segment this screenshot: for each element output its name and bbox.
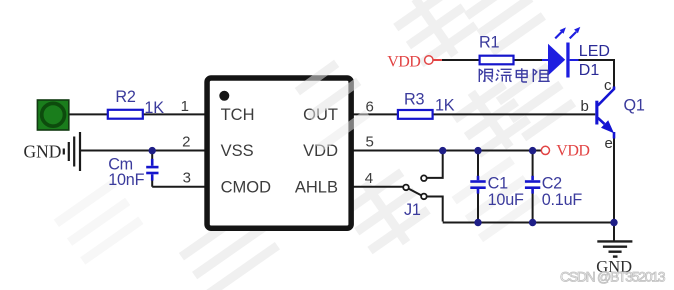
svg-text:R3: R3 bbox=[404, 91, 424, 109]
svg-text:10nF: 10nF bbox=[108, 171, 144, 189]
svg-text:3: 3 bbox=[183, 170, 191, 187]
svg-text:VDD: VDD bbox=[556, 143, 589, 160]
svg-text:AHLB: AHLB bbox=[295, 179, 338, 197]
svg-text:c: c bbox=[604, 77, 612, 94]
svg-text:LED: LED bbox=[579, 43, 610, 60]
svg-text:D1: D1 bbox=[579, 62, 600, 79]
svg-text:2: 2 bbox=[182, 134, 190, 151]
svg-text:1: 1 bbox=[181, 98, 189, 115]
svg-text:e: e bbox=[605, 135, 613, 152]
svg-text:R2: R2 bbox=[115, 88, 135, 106]
svg-text:VSS: VSS bbox=[221, 142, 254, 160]
svg-text:b: b bbox=[581, 98, 589, 115]
svg-text:10uF: 10uF bbox=[488, 191, 524, 209]
svg-text:Q1: Q1 bbox=[624, 97, 645, 115]
svg-text:1K: 1K bbox=[144, 99, 164, 117]
svg-text:1K: 1K bbox=[435, 97, 455, 115]
svg-text:TCH: TCH bbox=[221, 106, 255, 124]
svg-text:CMOD: CMOD bbox=[221, 179, 271, 197]
svg-text:GND: GND bbox=[24, 141, 62, 161]
svg-text:5: 5 bbox=[366, 133, 374, 150]
svg-text:4: 4 bbox=[365, 170, 373, 187]
svg-text:VDD: VDD bbox=[387, 54, 420, 71]
svg-text:J1: J1 bbox=[404, 201, 421, 219]
svg-text:CSDN @BT352013: CSDN @BT352013 bbox=[560, 269, 666, 285]
svg-text:R1: R1 bbox=[479, 33, 499, 51]
svg-text:0.1uF: 0.1uF bbox=[542, 191, 583, 209]
